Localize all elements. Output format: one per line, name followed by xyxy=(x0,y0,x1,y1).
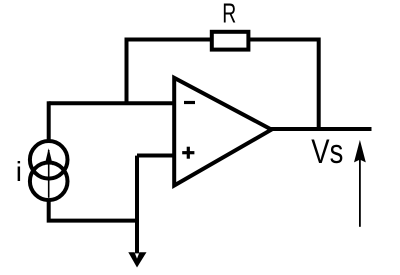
wire: inverting input horizontal xyxy=(49,101,177,105)
op-amp plus sign (vertical bar) xyxy=(187,147,190,159)
current source i (upper circle) xyxy=(30,141,68,179)
op-amp plus sign (horizontal bar) xyxy=(182,151,194,154)
wire: output horizontal xyxy=(268,127,372,131)
op-amp minus sign xyxy=(184,101,195,104)
wire: ground vertical xyxy=(135,156,139,253)
current source arrow shaft xyxy=(48,150,50,198)
wire: non-inverting input horizontal xyxy=(137,154,176,158)
op-amp U1 triangle xyxy=(174,78,271,186)
Vs arrowhead xyxy=(354,140,366,163)
Vs arrow shaft xyxy=(359,159,361,227)
wire: feedback loop (left vertical, top horizontal, right vertical) xyxy=(127,40,319,132)
svg-text:Vs: Vs xyxy=(311,133,343,171)
ground arrowhead notch xyxy=(135,252,140,258)
svg-text:i: i xyxy=(16,156,22,187)
current source arrowhead xyxy=(45,148,53,165)
resistor R xyxy=(212,32,249,50)
current source i (lower circle) xyxy=(30,163,68,201)
wire: ground shaft over notch xyxy=(135,250,139,253)
wire: current source bottom stem and bottom horizontal xyxy=(49,200,137,221)
svg-text:R: R xyxy=(222,0,236,28)
wire: current source top stem xyxy=(47,101,51,141)
ground arrowhead xyxy=(128,252,146,267)
